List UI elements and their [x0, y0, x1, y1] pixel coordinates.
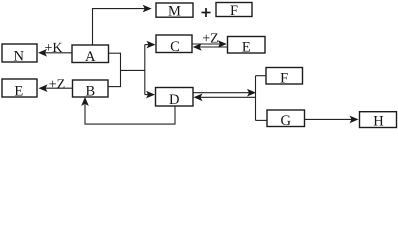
svg-text:+Z: +Z — [202, 31, 218, 46]
arrowhead into C from E — [193, 43, 202, 51]
wire E to C bottom line — [199, 46, 228, 48]
wire C to E top line — [192, 43, 221, 45]
wire G to H — [305, 118, 353, 120]
box E left — [2, 79, 37, 97]
box B — [73, 80, 109, 97]
wire D to node top line — [193, 92, 249, 94]
arrowhead into E left — [39, 84, 48, 92]
svg-text:M: M — [168, 3, 181, 19]
wire bracket middle — [121, 69, 145, 71]
wire to G — [256, 119, 268, 121]
wire arrow line to C — [145, 44, 150, 46]
wire arrow line to E left — [45, 87, 73, 89]
arrowhead into D from node — [194, 94, 203, 102]
svg-text:B: B — [85, 83, 95, 99]
svg-text:F: F — [280, 70, 288, 86]
wire bracket vertical — [120, 53, 122, 87]
arrowhead into N — [38, 49, 47, 57]
svg-text:E: E — [14, 83, 23, 99]
box M — [156, 3, 193, 17]
box G — [267, 110, 305, 127]
wire node to D bottom line — [200, 96, 256, 98]
wire arrow line to D — [145, 94, 149, 96]
box E right — [228, 37, 266, 54]
wire arrow line to N — [44, 52, 72, 54]
arrowhead into D — [146, 91, 155, 99]
wire A top vertical — [93, 9, 146, 45]
box F right — [266, 68, 303, 85]
wire bracket B right — [108, 86, 121, 88]
svg-text:A: A — [85, 49, 96, 65]
wire right vertical node — [255, 76, 257, 121]
arrowhead into node from D — [247, 89, 256, 97]
arrowhead into E right — [218, 40, 227, 48]
box C — [156, 35, 192, 53]
wire to F right — [256, 75, 267, 77]
svg-text:+K: +K — [44, 41, 62, 56]
box N — [2, 44, 37, 62]
wire D feedback down — [85, 103, 175, 124]
box F top — [216, 3, 252, 17]
label plus top — [202, 8, 211, 17]
svg-text:H: H — [373, 113, 384, 129]
arrowhead into B bottom — [81, 97, 89, 106]
svg-text:F: F — [230, 3, 238, 19]
wire bracket A right — [109, 52, 121, 54]
svg-text:+Z: +Z — [49, 77, 65, 92]
box H — [360, 112, 397, 128]
arrowhead into H — [350, 116, 359, 124]
svg-text:C: C — [170, 39, 180, 55]
arrowhead into C — [147, 41, 156, 49]
svg-text:D: D — [169, 92, 179, 108]
box D — [156, 88, 194, 107]
box A — [72, 45, 109, 63]
wire branch vertical — [144, 45, 146, 95]
svg-text:G: G — [280, 113, 291, 129]
svg-text:N: N — [14, 48, 25, 64]
svg-text:E: E — [242, 39, 251, 55]
arrowhead into M — [143, 5, 152, 13]
